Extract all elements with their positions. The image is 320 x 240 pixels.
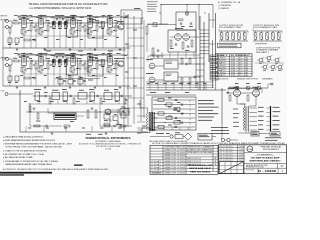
svg-text:U S A: U S A: [105, 148, 112, 151]
svg-text:DR. R. WILSON: DR. R. WILSON: [220, 146, 233, 148]
svg-text:DR. R. WILSON: DR. R. WILSON: [220, 152, 233, 154]
svg-text:SEE SHEET 2: SEE SHEET 2: [256, 52, 269, 54]
svg-text:DR. R. WILSON: DR. R. WILSON: [220, 149, 233, 151]
svg-text:IN TWO SPECIAL TYPE 2 ON TONE: IN TWO SPECIAL TYPE 2 ON TONE FRAME - US…: [6, 146, 62, 149]
svg-text:FILE NO: FILE NO: [246, 169, 255, 171]
svg-text:GROUND SWITCH: GROUND SWITCH: [215, 79, 229, 81]
svg-text:W/REVERB AND VIBRATO: W/REVERB AND VIBRATO: [250, 160, 281, 163]
svg-text:MODEL NO: MODEL NO: [152, 172, 163, 174]
svg-text:1: 1: [214, 158, 217, 160]
svg-text:B+ OPERATING VOL. 4A: B+ OPERATING VOL. 4A: [218, 1, 241, 4]
svg-text:THE SMALL CAPACITORS MARKED AR: THE SMALL CAPACITORS MARKED ARE IN MMF O…: [29, 3, 108, 6]
svg-text:7-65: 7-65: [239, 157, 244, 159]
svg-text:INSTRUMENTS: INSTRUMENTS: [263, 149, 280, 151]
svg-text:1: 1: [214, 161, 217, 163]
svg-text:4. ALL REMOVED IN WATT 5 AMP.: 4. ALL REMOVED IN WATT 5 AMP.: [3, 156, 33, 159]
svg-text:7-65: 7-65: [239, 146, 244, 148]
svg-text:MTG SCHEMATIC DIAG: MTG SCHEMATIC DIAG: [219, 26, 242, 29]
svg-text:410 - 425 - 440: 410 - 425 - 440: [231, 75, 248, 77]
svg-text:(FORMERLY) SANTA ANA: (FORMERLY) SANTA ANA: [96, 140, 122, 143]
svg-text:7-65: 7-65: [239, 152, 244, 154]
svg-text:—SCHEMATIC—: —SCHEMATIC—: [255, 153, 276, 156]
svg-text:FENDER MUSICAL INSTRUMENTS: FENDER MUSICAL INSTRUMENTS: [86, 137, 131, 140]
svg-text:7-65: 7-65: [239, 155, 244, 157]
svg-text:100 WATTS BASS AMP: 100 WATTS BASS AMP: [251, 157, 281, 160]
svg-text:A. PRODUCT ON SELECTED OUT TO: A. PRODUCT ON SELECTED OUT TO COVER A 50…: [3, 168, 109, 171]
svg-text:D - 10366: D - 10366: [258, 170, 277, 173]
svg-text:FULLERTON CALIFORNIA: FULLERTON CALIFORNIA: [96, 145, 121, 148]
svg-text:1. WHITE FRAME PART/BULB DRIV: 1. WHITE FRAME PART/BULB DRIVER ASSEMBLY…: [3, 142, 72, 145]
svg-text:STANDBY SWITCH FOR: STANDBY SWITCH FOR: [237, 78, 259, 81]
svg-text:▲ WHITE FRAME PART/BULB ASSY: ▲ WHITE FRAME PART/BULB ASSY REVERB DRIV…: [3, 139, 56, 142]
svg-text:CBS: CBS: [248, 149, 253, 151]
svg-text:( ) STANDBY: ( ) STANDBY: [218, 7, 230, 10]
svg-text:( ) OPERATING: ( ) OPERATING: [218, 4, 231, 7]
svg-text:△ INDICATES THAT A 2500 CONTR: △ INDICATES THAT A 2500 CONTROL: [3, 135, 44, 138]
svg-text:7-65: 7-65: [239, 149, 244, 151]
svg-text:INPUTS: INPUTS: [0, 16, 8, 18]
svg-text:FOR SCHEMATIC DIAG: FOR SCHEMATIC DIAG: [253, 26, 278, 29]
svg-text:DR. R. WILSON: DR. R. WILSON: [220, 155, 233, 157]
svg-text:5. VOLTAGES READ TO GROUND WI: 5. VOLTAGES READ TO GROUND WITH 117 V AC…: [3, 160, 59, 163]
svg-text:3. ALL RESISTORS 1/2 WATT 10%: 3. ALL RESISTORS 1/2 WATT 10%, U.S.A.: [3, 153, 44, 156]
svg-text:DR. R. WILSON: DR. R. WILSON: [220, 157, 233, 159]
svg-text:12AT7: 12AT7: [217, 74, 226, 77]
svg-text:1: 1: [214, 164, 217, 166]
svg-text:L.A. NOTED ON THIS DRAWING. TO: L.A. NOTED ON THIS DRAWING. TOTAL 120 VA…: [30, 7, 92, 10]
svg-text:A DIVISION OF COLUMBIA BROADCA: A DIVISION OF COLUMBIA BROADCASTING SYST…: [79, 142, 142, 145]
svg-text:MEASURED/READING ARE AT LEAST: MEASURED/READING ARE AT LEAST NORMAL VAL…: [6, 163, 53, 166]
svg-text:2. TUBES TO THE VOLTAGE SELEC: 2. TUBES TO THE VOLTAGE SELECTOR NOTED: [3, 149, 47, 152]
svg-text:SCHEMATIC: SCHEMATIC: [262, 78, 274, 81]
